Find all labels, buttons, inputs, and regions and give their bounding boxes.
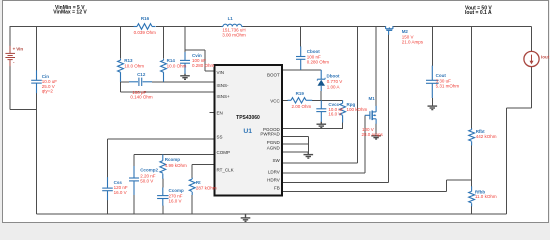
- svg-text:EN: EN: [217, 111, 223, 116]
- svg-text:R13: R13: [124, 58, 133, 63]
- svg-text:Cboot: Cboot: [307, 49, 320, 54]
- wire: Iout return jog: [506, 107, 531, 109]
- svg-text:HDRV: HDRV: [267, 178, 280, 183]
- wire: SS net horizontal: [108, 138, 215, 140]
- wire: Ccomp2 riser upper: [133, 155, 135, 167]
- wire: LDRV net horizontal: [283, 172, 365, 174]
- svg-text:R14: R14: [167, 58, 176, 63]
- wire: Css bottom to ground rail: [107, 200, 109, 214]
- wire: Rfbb bottom to ground rail: [471, 206, 473, 214]
- wire: ISNS- net right part (C12 to ISNS- pin): [152, 81, 214, 83]
- svg-text:442 kOhm: 442 kOhm: [476, 134, 497, 139]
- wire: ISNS+ net to ISNS+ pin: [121, 91, 215, 93]
- wire: M1 source to ground: [375, 124, 377, 136]
- svg-text:2.20 nF: 2.20 nF: [140, 173, 156, 178]
- wire: PWRPAD/PGND/AGND tie vertical: [307, 137, 309, 152]
- svg-text:Ccomp: Ccomp: [169, 188, 185, 193]
- wire: PWRPAD net horizontal: [283, 136, 308, 138]
- wire: bottom ground rail: [37, 213, 507, 215]
- wire: FB jog to divider midpoint: [447, 179, 472, 181]
- svg-text:16.0 V: 16.0 V: [328, 112, 341, 117]
- svg-text:qty=2: qty=2: [42, 88, 54, 93]
- svg-text:SS: SS: [217, 134, 223, 139]
- svg-text:4.99 kOhm: 4.99 kOhm: [165, 163, 187, 168]
- svg-text:BOOT: BOOT: [267, 73, 280, 78]
- svg-text:2.00 Ohm: 2.00 Ohm: [292, 104, 312, 109]
- svg-text:Rt: Rt: [196, 180, 201, 185]
- wire: Ccomp2 bottom to ground rail: [133, 195, 135, 214]
- svg-text:LDRV: LDRV: [268, 170, 280, 175]
- wire: Rcomp to Ccomp link: [162, 179, 164, 188]
- wire: BOOT net horizontal: [283, 69, 321, 71]
- svg-text:U1: U1: [243, 128, 252, 135]
- resistor R19: [288, 98, 313, 103]
- ground (Cvcc): [317, 122, 327, 128]
- svg-text:R16: R16: [141, 16, 150, 21]
- wire: COMP net horizontal: [134, 154, 214, 156]
- capacitor Cvin: [180, 52, 190, 74]
- svg-text:VCC: VCC: [270, 98, 280, 103]
- svg-text:5.31 mOhm: 5.31 mOhm: [436, 84, 460, 89]
- svg-text:151.736 uH: 151.736 uH: [222, 27, 245, 32]
- svg-text:1.00 A: 1.00 A: [327, 85, 340, 90]
- svg-text:ISNS+: ISNS+: [217, 94, 231, 99]
- wire: HDRV riser to M2 gate: [388, 35, 390, 183]
- wire: Cboot riser from SW rail: [300, 27, 302, 47]
- wire: AGND net horizontal: [283, 151, 308, 153]
- wire: left rail down to battery +: [9, 26, 11, 46]
- svg-text:R19: R19: [296, 91, 305, 96]
- resistor Rfbt (feedback top): [469, 128, 475, 145]
- wire: return rail down to ground rail: [505, 108, 507, 214]
- capacitor Ccomp: [157, 188, 168, 206]
- wire: R13 riser from top rail: [120, 27, 122, 59]
- svg-text:28.0 Amps: 28.0 Amps: [362, 132, 384, 137]
- svg-text:11.0 kOhm: 11.0 kOhm: [475, 194, 497, 199]
- diode Dboot (schottky): [317, 70, 325, 91]
- resistor Rfbb (feedback bottom): [469, 186, 475, 206]
- wire: M1 drain riser from SW rail: [375, 27, 377, 107]
- wire: VIN branch horizontal: [185, 49, 205, 51]
- svg-text:Ccomp2: Ccomp2: [140, 167, 158, 172]
- svg-text:287 kOhm: 287 kOhm: [196, 185, 217, 190]
- wire: FB jog vertical: [446, 180, 448, 191]
- wire: HDRV net horizontal: [283, 181, 389, 183]
- resistor R16 (current sense): [134, 24, 156, 30]
- wire: top rail Vin node (battery+ to R16 left): [10, 26, 134, 28]
- wire: Vout rail (M2 drain to Iout riser): [393, 26, 532, 28]
- wire: Iout bottom down: [531, 67, 533, 108]
- svg-text:16.0 V: 16.0 V: [114, 190, 127, 195]
- wire: RT_CLK net horizontal: [192, 164, 214, 166]
- ground (AGND/PGND/PWRPAD): [304, 152, 314, 158]
- svg-text:PWRPAD: PWRPAD: [260, 132, 280, 137]
- wire: LDRV riser to M1 gate: [364, 115, 366, 173]
- wire: ISNS- net left part (R13 bottom to C12): [121, 81, 130, 83]
- inductor L1: [222, 24, 244, 26]
- wire: Rfbt riser from Vout rail: [471, 27, 473, 129]
- svg-text:+: +: [13, 47, 16, 52]
- capacitor Cboot: [296, 46, 305, 69]
- wire: SW riser to SW rail: [357, 27, 359, 164]
- wire: Rt bottom to ground rail: [191, 195, 193, 214]
- wire: Rt riser upper: [191, 165, 193, 178]
- capacitor Ccomp2: [129, 166, 139, 195]
- wire: Iout riser from Vout rail: [531, 27, 533, 52]
- wire: VIN pin stub: [205, 70, 214, 72]
- transistor M1 (low-side NFET): [365, 106, 376, 124]
- svg-text:SW: SW: [273, 158, 281, 163]
- svg-text:0.140 Ohm: 0.140 Ohm: [130, 95, 153, 100]
- svg-text:0.770 V: 0.770 V: [327, 79, 343, 84]
- ground (Cvin): [180, 74, 190, 80]
- capacitor C12 (sense filter): [129, 78, 152, 86]
- wire: junction link ISNS+ to R13 bottom: [120, 82, 122, 92]
- capacitor Cvcc: [316, 100, 326, 122]
- wire: EN pin stub (unconnected): [210, 112, 215, 114]
- wire: PGND net horizontal: [283, 143, 308, 145]
- svg-text:VinMax = 12 V: VinMax = 12 V: [53, 10, 87, 16]
- wire: top rail between R16 and L1: [156, 26, 222, 28]
- svg-text:21.0 Amps: 21.0 Amps: [402, 39, 424, 44]
- battery source Vin: [5, 46, 15, 66]
- capacitor Cout: [426, 66, 439, 98]
- svg-text:100 kOhm: 100 kOhm: [347, 107, 368, 112]
- wire: SW node rail (L1 right to M2 source): [243, 26, 386, 28]
- svg-text:10.0 Ohm: 10.0 Ohm: [167, 64, 187, 69]
- wire: Cin riser top (top rail to Cin): [36, 27, 38, 71]
- capacitor Css: [102, 177, 113, 200]
- wire: VCC net (R19 right to Cvcc/Rpg): [312, 99, 343, 101]
- svg-text:TPS43060: TPS43060: [236, 115, 260, 121]
- svg-text:50.0 V: 50.0 V: [140, 179, 153, 184]
- svg-text:0.039 Ohm: 0.039 Ohm: [134, 30, 157, 35]
- capacitor Cin: [31, 70, 42, 93]
- wire: Ccomp bottom to ground rail: [162, 206, 164, 214]
- resistor Rcomp: [160, 155, 166, 179]
- wire: Cout bottom to ground: [431, 98, 433, 106]
- wire: divider midpoint link (Rfbt bottom to Rfbb top): [471, 145, 473, 186]
- wire: FB net horizontal: [283, 191, 447, 193]
- wire: R14 riser from top rail: [163, 27, 165, 59]
- wire: Cout riser from Vout rail: [431, 27, 433, 66]
- resistor R14: [161, 59, 167, 82]
- svg-text:Rcomp: Rcomp: [165, 157, 181, 162]
- svg-text:Iout = 0.1 A: Iout = 0.1 A: [465, 10, 492, 16]
- svg-text:ISNS-: ISNS-: [217, 83, 230, 88]
- svg-text:10.0 Ohm: 10.0 Ohm: [124, 64, 144, 69]
- IC U1 TPS43060 body: [215, 65, 283, 196]
- svg-text:PGND: PGND: [267, 140, 281, 145]
- wire: Rpg bottom to PGOOD net: [342, 122, 344, 129]
- wire: Cin riser bottom down to ground rail: [36, 93, 38, 214]
- ground (Cout): [428, 106, 438, 110]
- transistor M2 (high-side sync NFET): [386, 26, 393, 35]
- svg-text:L1: L1: [228, 16, 234, 21]
- ground (main rail): [241, 214, 251, 222]
- svg-text:COMP: COMP: [217, 150, 231, 155]
- svg-text:0.280 Ohm: 0.280 Ohm: [307, 60, 330, 65]
- svg-text:0.280 Ohm: 0.280 Ohm: [192, 63, 215, 68]
- wire: SS riser upper (to Css): [107, 139, 109, 177]
- svg-text:RT_CLK: RT_CLK: [217, 167, 234, 172]
- svg-text:Dboot: Dboot: [327, 74, 340, 79]
- svg-text:M1: M1: [369, 96, 376, 101]
- wire: Dboot anode down to VCC net: [320, 91, 322, 100]
- svg-text:Cout: Cout: [436, 73, 447, 78]
- svg-text:FB: FB: [274, 186, 280, 191]
- svg-text:C12: C12: [137, 72, 146, 77]
- svg-text:Iout: Iout: [541, 54, 550, 59]
- wire: battery bottom jog to Cin riser: [10, 109, 37, 111]
- resistor Rt: [189, 178, 195, 195]
- svg-text:16.0 V: 16.0 V: [169, 199, 182, 204]
- ground (M1 source): [371, 136, 381, 139]
- wire: left rail battery - down: [9, 66, 11, 109]
- svg-text:3.00 mOhm: 3.00 mOhm: [222, 33, 246, 38]
- resistor R13: [118, 59, 124, 82]
- wire: VCC pin stub to R19: [283, 99, 288, 101]
- svg-text:AGND: AGND: [267, 146, 281, 151]
- svg-text:Vin: Vin: [16, 47, 23, 52]
- svg-text:VIN: VIN: [217, 70, 225, 75]
- wire: SW pin net horizontal: [283, 162, 358, 164]
- wire: VIN branch vertical: [204, 50, 206, 71]
- wire: Cvin riser from top rail: [184, 27, 186, 53]
- wire: PGOOD net horizontal: [283, 128, 343, 130]
- resistor Rpg (PGOOD pull-up): [340, 100, 346, 122]
- current source Iout: [524, 51, 539, 66]
